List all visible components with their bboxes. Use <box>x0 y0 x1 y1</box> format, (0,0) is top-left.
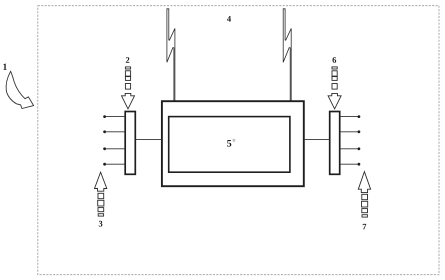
left port block <box>125 112 135 175</box>
lightning bolt right <box>283 9 291 102</box>
wire R3 <box>340 148 359 150</box>
wire: unit 5 to right block <box>304 139 330 141</box>
label 3 <box>99 221 103 227</box>
wire L4 <box>105 163 126 165</box>
segmented flow arrow 6 (down) <box>328 67 341 109</box>
faint superscript mark next to 5 <box>233 139 236 142</box>
right port block <box>330 112 340 175</box>
label 1 <box>3 64 6 70</box>
segmented flow arrow 2 (down) <box>122 67 135 109</box>
segmented flow arrow 3 (up) <box>95 172 107 216</box>
wire R4 <box>340 163 359 165</box>
label 4 <box>227 16 231 22</box>
wire R2 <box>340 131 359 133</box>
wire L3 <box>105 148 126 150</box>
outer rectangle of unit 5 <box>162 101 304 186</box>
lightning bolt left <box>167 9 175 102</box>
wire R1 <box>340 116 359 118</box>
wire L2 <box>105 131 126 133</box>
label 5 <box>227 140 231 147</box>
label 2 <box>126 57 130 63</box>
right stub wires with terminal dots <box>340 115 361 165</box>
segmented flow arrow 7 (up) <box>358 172 370 217</box>
wire L1 <box>105 116 126 118</box>
inner rectangle of unit 5 <box>169 117 290 173</box>
wire: left block to unit 5 <box>135 139 162 141</box>
left stub wires with terminal dots <box>103 115 125 165</box>
curved lead arrow for 1 <box>6 71 34 108</box>
label 6 <box>332 57 336 63</box>
label 7 <box>363 224 367 230</box>
